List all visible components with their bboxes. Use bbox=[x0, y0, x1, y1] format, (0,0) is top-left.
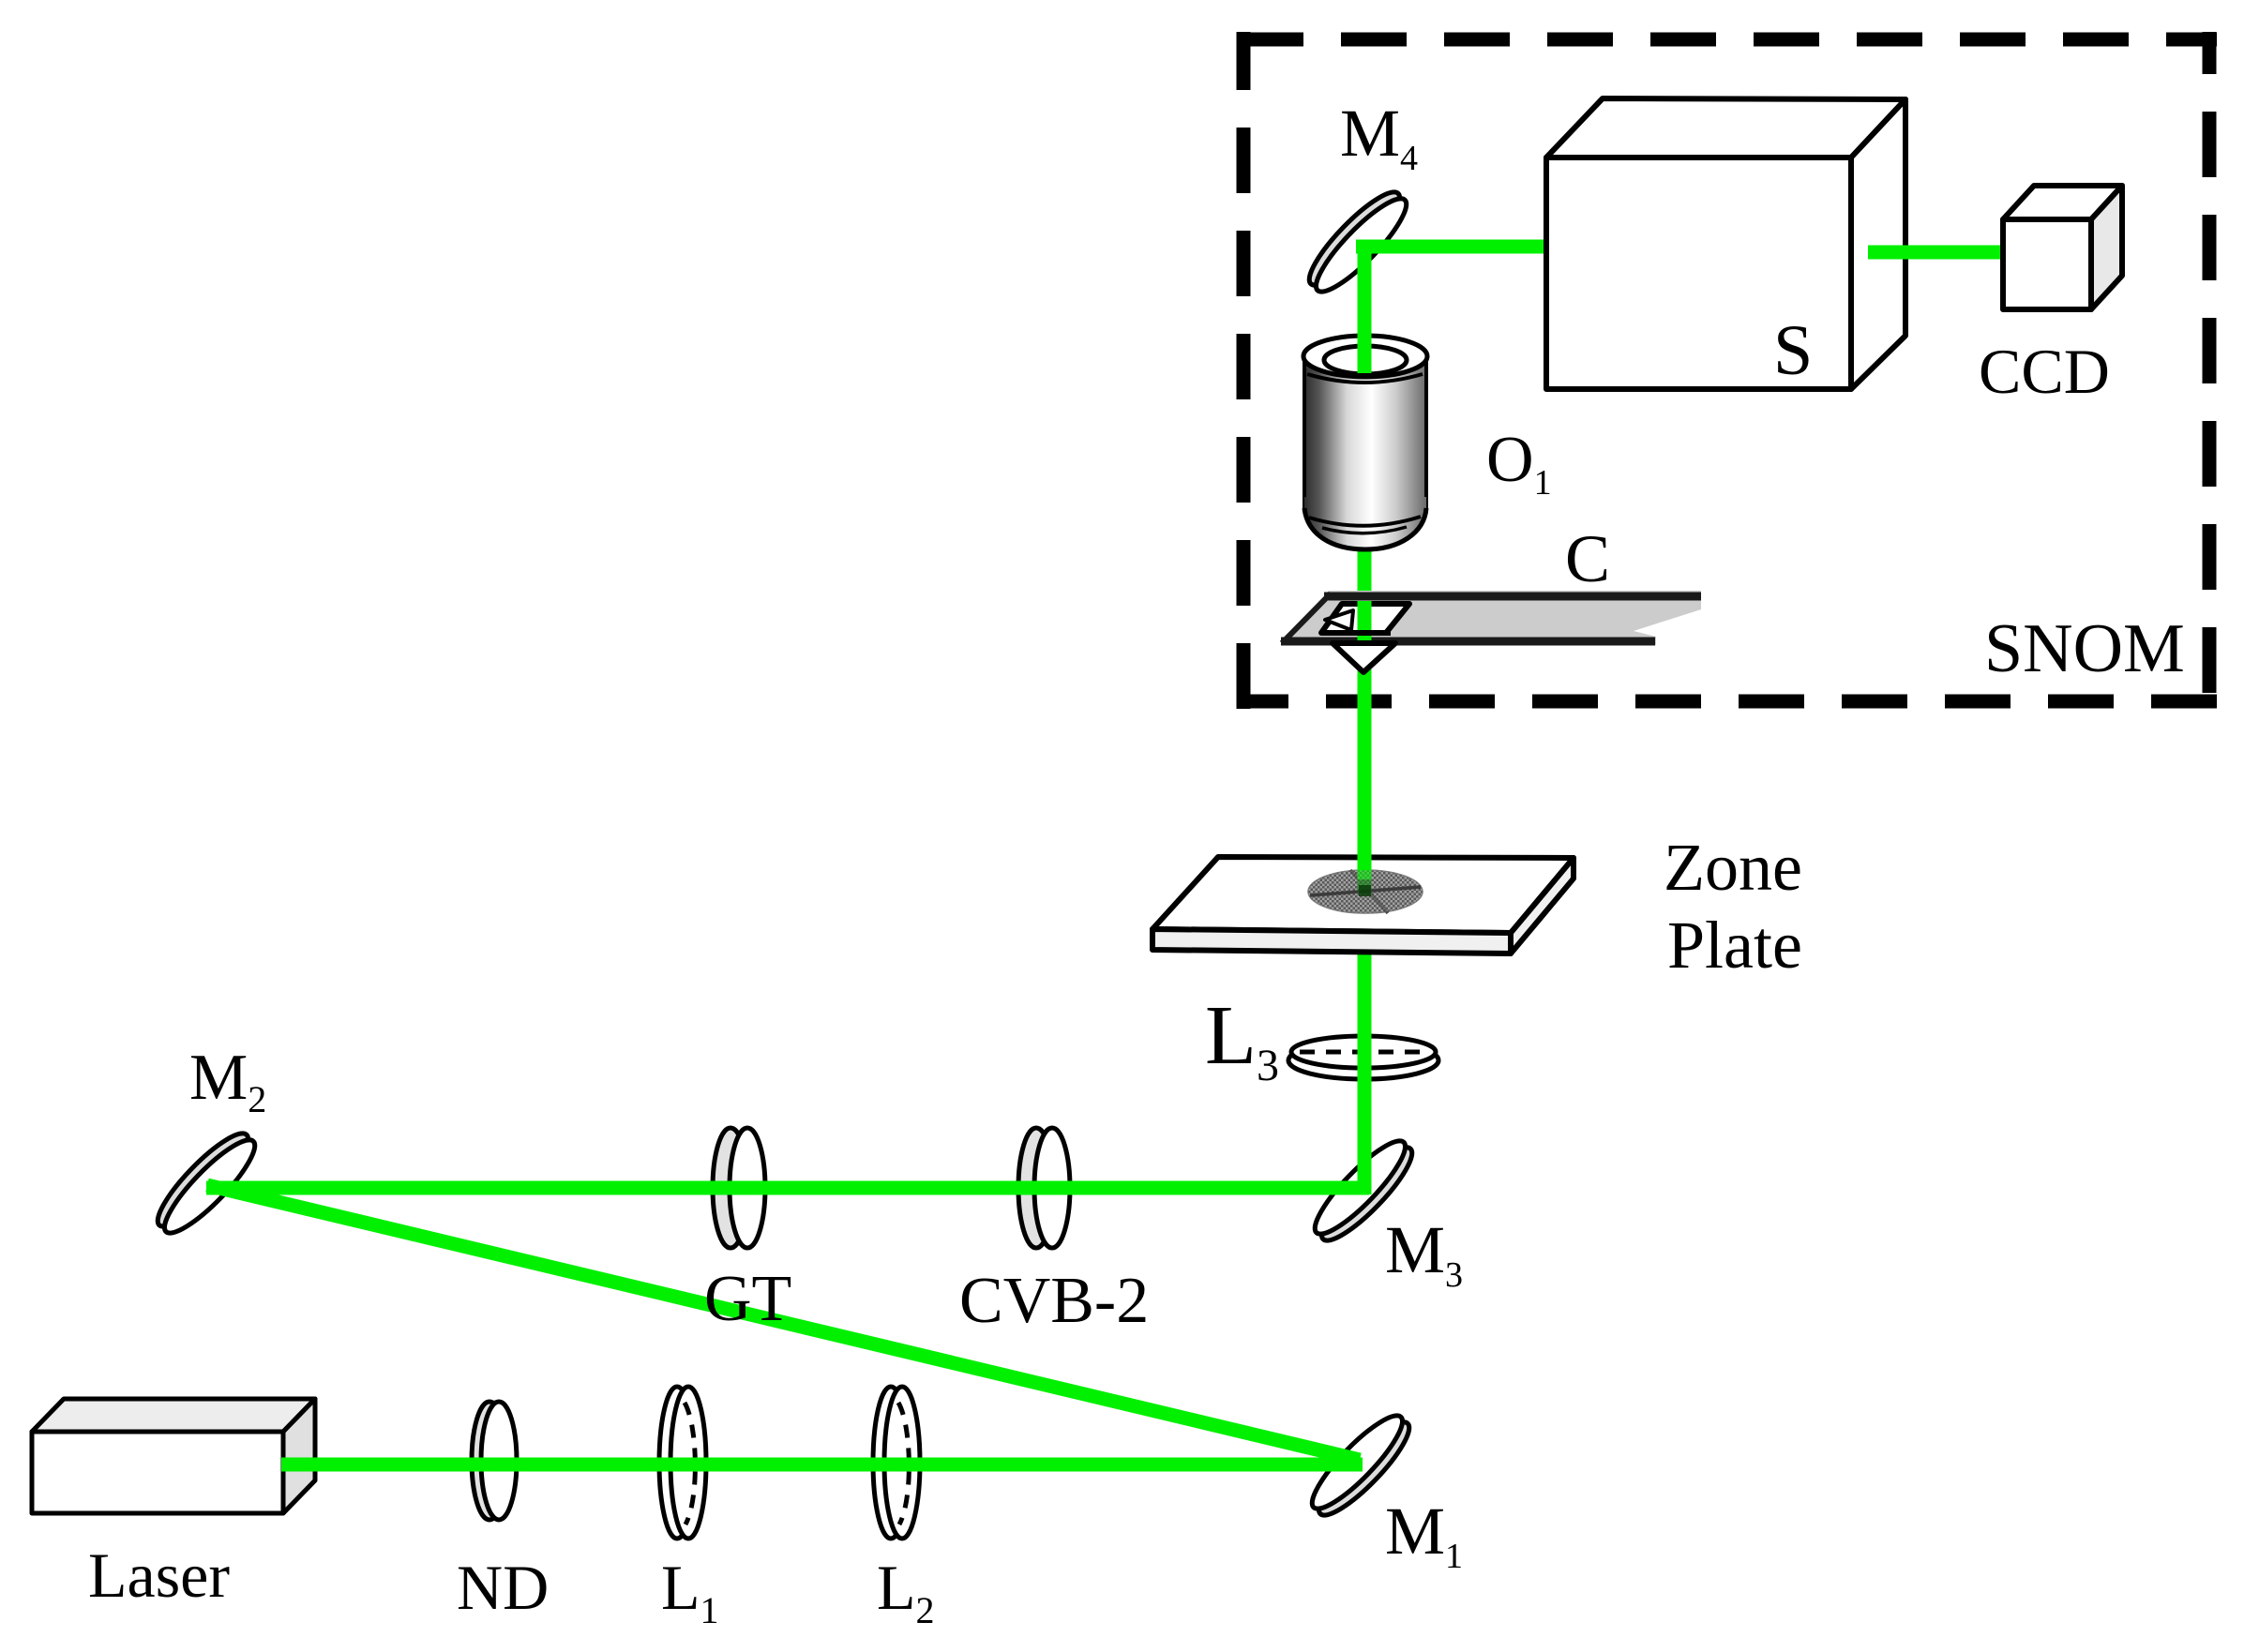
svg-text:S: S bbox=[1773, 311, 1813, 390]
wire beam S to CCD bbox=[1868, 246, 2007, 260]
lens L1 bbox=[659, 1387, 706, 1539]
svg-text:SNOM: SNOM bbox=[1984, 610, 2185, 687]
mirror M1 bbox=[1303, 1406, 1420, 1525]
lens CVB-2 bbox=[1018, 1128, 1070, 1248]
svg-text:ND: ND bbox=[457, 1552, 549, 1623]
mirror M2 bbox=[148, 1124, 265, 1243]
cantilever hole bbox=[1321, 604, 1409, 633]
tip below cantilever bbox=[1333, 643, 1395, 672]
CCD cube bbox=[2003, 186, 2122, 309]
wire beam M2 to M3 bbox=[206, 1181, 1369, 1195]
wire beam in hole bbox=[1358, 601, 1372, 641]
svg-text:Zone: Zone bbox=[1664, 830, 1802, 905]
mirror M3 bbox=[1305, 1132, 1423, 1251]
zone plate pattern bbox=[1308, 870, 1423, 913]
objective O1 bbox=[1303, 336, 1427, 549]
laser box bbox=[32, 1399, 315, 1513]
svg-text:CVB-2: CVB-2 bbox=[959, 1265, 1149, 1337]
svg-text:C: C bbox=[1565, 521, 1610, 596]
wire beam diagonal M1 to M2 bbox=[207, 1185, 1360, 1460]
beam end darkening at zone plate bbox=[1358, 879, 1372, 894]
lens GT bbox=[713, 1128, 765, 1248]
wire beam cantilever to zone plate bbox=[1358, 547, 1372, 893]
filter ND bbox=[472, 1402, 517, 1520]
svg-text:Laser: Laser bbox=[88, 1539, 230, 1611]
cantilever hole lower edge over beam bbox=[1338, 630, 1391, 636]
zone plate pattern overlay on beam bbox=[1308, 870, 1423, 913]
lens L2 bbox=[873, 1387, 920, 1539]
tip pyramid seen through hole bbox=[1325, 610, 1353, 630]
zone plate bbox=[1152, 857, 1574, 954]
wire beam M4 to S box bbox=[1356, 240, 1553, 254]
wire laser beam horizontal bbox=[281, 1458, 1363, 1472]
cantilever C plate bbox=[1281, 591, 1701, 645]
wire beam M3 up to zone plate bbox=[1358, 950, 1372, 1194]
SNOM dashed box bbox=[1238, 32, 2217, 709]
svg-text:Plate: Plate bbox=[1667, 908, 1802, 983]
box S bbox=[1546, 98, 1905, 389]
wire beam M4 down to objective bbox=[1358, 240, 1372, 373]
svg-text:CCD: CCD bbox=[1979, 336, 2110, 407]
mirror M4 bbox=[1300, 183, 1417, 302]
svg-text:GT: GT bbox=[704, 1263, 791, 1335]
lens L3 bbox=[1288, 1036, 1438, 1079]
